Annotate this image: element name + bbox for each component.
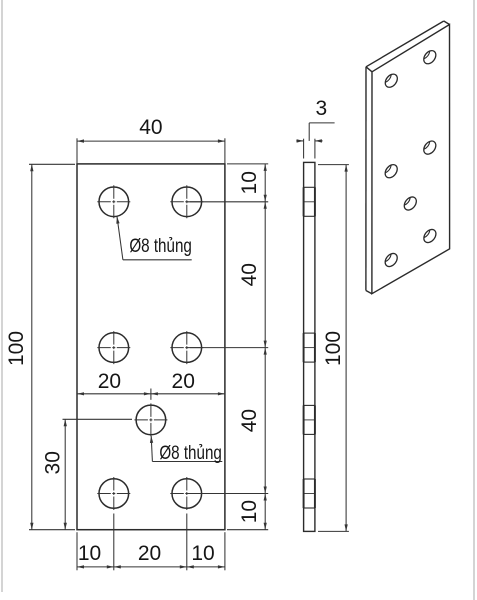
3D hole P5 [402, 195, 419, 213]
centerline D2 [170, 493, 203, 495]
3D view bottom-left thickness edge [366, 291, 372, 294]
dimension 3 thickness [303, 139, 305, 159]
centerline B1 [97, 347, 130, 349]
svg-text:3: 3 [315, 97, 327, 120]
svg-text:40: 40 [238, 263, 261, 286]
centerline A1 [97, 201, 130, 203]
dimension 100 side [318, 164, 349, 166]
svg-text:10: 10 [238, 500, 261, 523]
dimension 40 top [76, 138, 78, 163]
svg-text:100: 100 [322, 331, 345, 366]
svg-text:Ø8 thủng: Ø8 thủng [129, 234, 192, 256]
svg-text:40: 40 [139, 116, 162, 139]
page border left [1, 0, 3, 592]
bottom dimension chain [76, 532, 78, 570]
front view plate outline [77, 164, 225, 530]
leader note Ø8 centre [151, 436, 152, 462]
dimension 30 [63, 418, 133, 420]
3D hole P4 [421, 139, 438, 157]
hole A1 [99, 187, 129, 217]
centerline D1 [97, 493, 130, 495]
3D view back left edge [365, 67, 367, 291]
dimension 100 left [29, 163, 75, 165]
hole C [136, 405, 166, 435]
hole B1 [99, 333, 129, 363]
side view hole projection row1 [304, 186, 315, 188]
svg-text:10: 10 [78, 542, 101, 565]
3D hole P2 [421, 48, 438, 66]
dimension 20 20 [77, 393, 225, 395]
leader note Ø8 top [117, 217, 123, 260]
side view hole projection row2 [304, 332, 315, 334]
svg-text:Ø8 thủng: Ø8 thủng [159, 441, 222, 463]
3D view top-right thickness edge [444, 21, 450, 25]
3D hole P6 [383, 251, 400, 269]
svg-text:40: 40 [238, 409, 261, 432]
centerline B2 [170, 347, 203, 349]
side view hole projection row3 [304, 478, 315, 480]
hole A2 [172, 187, 202, 217]
svg-text:20: 20 [172, 370, 195, 393]
3D view plate front face [372, 25, 450, 294]
3D view top-left thickness edge [366, 67, 372, 72]
svg-text:10: 10 [238, 171, 261, 194]
3D view back top edge [366, 21, 444, 67]
svg-text:20: 20 [138, 542, 161, 565]
svg-text:20: 20 [98, 370, 121, 393]
side view hole projection rowC [304, 404, 315, 406]
hole D1 [99, 479, 129, 509]
hole D2 [172, 479, 202, 509]
svg-text:100: 100 [5, 331, 28, 366]
3D hole P7 [421, 227, 438, 245]
side view plate outline [304, 162, 315, 531]
right dimension chain [227, 163, 268, 165]
3D hole P1 [383, 72, 400, 90]
svg-text:30: 30 [42, 451, 65, 474]
svg-text:10: 10 [191, 542, 214, 565]
centerline C [134, 419, 167, 421]
hole B2 [172, 333, 202, 363]
3D hole P3 [383, 162, 400, 180]
centerline A2 [170, 201, 203, 203]
page border right [473, 0, 475, 600]
